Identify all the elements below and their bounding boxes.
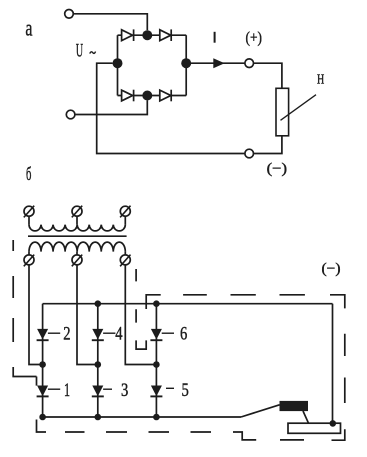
dashed housing left side [13, 240, 46, 432]
bridge frame left edge [117, 35, 119, 95]
diode VD3 (bottom-left) [122, 90, 133, 101]
primary winding stubs [29, 216, 125, 224]
phase wire C [125, 265, 156, 364]
wire T1 to bridge top node [73, 14, 147, 30]
label I [214, 32, 216, 43]
phase wire B [77, 265, 98, 364]
node bottom bus 1 [39, 414, 46, 421]
terminal (+) [245, 59, 254, 68]
dashed housing bottom right [280, 429, 345, 440]
wire (-) return to bridge left node [97, 63, 245, 153]
node phase B junction [95, 361, 102, 368]
svg-text:(−): (−) [322, 261, 341, 277]
primary winding coils [29, 225, 125, 231]
svg-text:6: 6 [180, 324, 188, 345]
transformer core [28, 235, 127, 237]
wire resistor to (-) terminal [254, 136, 282, 154]
terminal (-) [245, 149, 254, 158]
bridge frame right edge [185, 35, 187, 95]
switch lever wire [241, 405, 280, 417]
current arrow I [213, 58, 224, 68]
svg-text:4: 4 [115, 324, 123, 345]
node top middle [142, 30, 152, 40]
diode 2 [38, 329, 47, 338]
svg-text:б: б [26, 165, 31, 185]
contact link wire [303, 411, 309, 423]
right output wire down [332, 304, 334, 424]
diode VD2 (top-right) [160, 30, 171, 41]
terminal T2 (AC input bottom) [66, 110, 75, 119]
dashed housing bottom left [65, 432, 256, 440]
column 2 wire [97, 304, 99, 417]
svg-text:(+): (+) [246, 30, 262, 47]
primary terminal P1 [24, 206, 34, 216]
diode 1 [38, 386, 47, 395]
svg-text:H: H [317, 72, 324, 88]
column 1 wire [42, 304, 44, 417]
secondary terminal S1 [24, 255, 34, 265]
wire bottom edge segments [118, 95, 187, 97]
diode VD4 (bottom-right) [160, 90, 171, 101]
resistor H [276, 88, 289, 136]
node bottom bus 2 [95, 414, 102, 421]
primary terminal P3 [120, 206, 130, 216]
svg-text:3: 3 [121, 380, 128, 401]
dashed housing notch [136, 269, 146, 349]
diode 5 [152, 386, 161, 395]
node left middle [113, 58, 123, 68]
phase wire A [29, 265, 43, 364]
diode 4 [93, 329, 102, 338]
node phase A junction [39, 361, 46, 368]
leader line H [281, 95, 317, 121]
dashed housing top [146, 295, 305, 309]
svg-text:(−): (−) [267, 161, 287, 177]
switch contact block [280, 401, 309, 411]
svg-text:а: а [25, 15, 32, 40]
wire right output [186, 62, 245, 64]
diode 6 [152, 329, 161, 338]
top bus wire [43, 303, 333, 305]
secondary terminal S3 [120, 255, 130, 265]
node plate junction [330, 420, 337, 427]
diode VD1 (top-left) [122, 30, 133, 41]
terminal T1 (AC input top) [65, 10, 74, 19]
node bottom middle [142, 91, 152, 101]
node phase C junction [153, 361, 160, 368]
svg-text:1: 1 [64, 380, 70, 401]
wire T2 to bridge bottom node [75, 101, 147, 115]
wire top edge segments [118, 34, 187, 36]
svg-text:5: 5 [182, 380, 189, 401]
node right middle [181, 58, 191, 68]
secondary winding stubs [29, 252, 125, 255]
column 3 wire [155, 304, 157, 417]
ground plate [288, 423, 341, 433]
node bus2 top [95, 300, 102, 307]
svg-text:U: U [76, 42, 83, 62]
dashed housing right side [330, 295, 345, 403]
wire (+) to resistor [254, 63, 282, 88]
secondary terminal S2 [72, 255, 82, 265]
node bus3 top [153, 300, 160, 307]
secondary winding coils [29, 242, 125, 252]
bottom bus wire [43, 416, 241, 418]
diode 3 [93, 386, 102, 395]
primary terminal P2 [72, 206, 82, 216]
node bottom bus 3 [153, 414, 160, 421]
svg-text:2: 2 [63, 324, 70, 345]
